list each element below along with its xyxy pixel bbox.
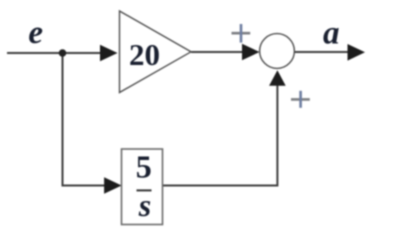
svg-text:20: 20 [129,37,160,72]
svg-text:e: e [28,15,43,51]
svg-text:a: a [323,16,340,52]
svg-text:s: s [138,187,151,223]
svg-text:5: 5 [136,148,152,184]
